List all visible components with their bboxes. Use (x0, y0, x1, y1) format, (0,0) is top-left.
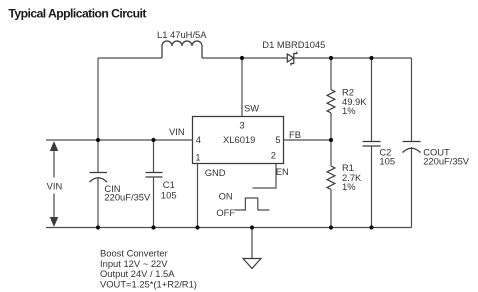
wire R1 top lead (330, 140, 332, 166)
svg-text:ON: ON (219, 190, 233, 201)
wire FB pin 5 to divider node (284, 139, 332, 141)
capacitor CIN (90, 173, 108, 183)
svg-text:105: 105 (379, 156, 395, 167)
capacitor C1 (146, 173, 163, 178)
wire left vertical from top rail down to VIN rail (97, 58, 99, 140)
svg-text:FB: FB (289, 129, 301, 140)
diode D1 (schottky) (287, 52, 297, 66)
svg-text:105: 105 (161, 190, 177, 201)
svg-text:Typical Application Circuit: Typical Application Circuit (8, 6, 146, 20)
ground (243, 228, 261, 269)
wire CIN top lead (97, 140, 99, 173)
svg-text:VOUT=1.25*(1+R2/R1): VOUT=1.25*(1+R2/R1) (100, 279, 197, 290)
op-amp U1 XL6019 box (193, 117, 284, 164)
wire SW node rail (L1 to D1 anode) (202, 57, 288, 59)
wire SW pin 3 vertical (241, 58, 243, 117)
svg-text:220uF/35V: 220uF/35V (423, 156, 470, 167)
wire COUT bottom lead (411, 147, 413, 228)
capacitor C2 (363, 142, 381, 147)
wire GND pin 1 vertical (197, 164, 199, 228)
wire C2 top lead (371, 58, 373, 142)
wire COUT top lead (411, 58, 413, 142)
svg-text:VIN: VIN (169, 126, 185, 137)
resistor R2 (327, 90, 335, 113)
svg-text:GND: GND (205, 167, 226, 178)
wire C1 top lead (153, 140, 155, 173)
resistor R1 (327, 166, 335, 189)
wire R1 bottom lead (330, 189, 332, 227)
wire output top rail (D1 cathode to COUT corner) (294, 57, 412, 59)
svg-text:VIN: VIN (47, 181, 63, 192)
inductor L1 (162, 41, 202, 58)
svg-text:XL6019: XL6019 (223, 134, 255, 145)
wire C1 bottom lead (153, 177, 155, 228)
wire top rail left segment (VIN to L1) (98, 57, 162, 59)
wire VIN rail (46, 139, 193, 141)
svg-text:220uF/35V: 220uF/35V (104, 192, 151, 203)
wire R2 bottom lead (330, 113, 332, 140)
svg-text:1%: 1% (342, 181, 356, 192)
svg-text:4: 4 (196, 134, 201, 145)
capacitor COUT (403, 142, 421, 153)
wire ground rail (46, 227, 412, 229)
svg-text:1%: 1% (342, 105, 356, 116)
svg-text:5: 5 (275, 134, 280, 145)
svg-text:SW: SW (244, 102, 259, 113)
svg-text:3: 3 (239, 120, 244, 131)
VIN input annotation arrows (51, 143, 58, 226)
svg-text:1: 1 (195, 151, 200, 162)
wire CIN bottom lead (97, 177, 99, 228)
svg-text:D1 MBRD1045: D1 MBRD1045 (262, 39, 325, 50)
svg-text:EN: EN (276, 166, 289, 177)
svg-text:L1 47uH/5A: L1 47uH/5A (157, 29, 207, 40)
wire EN pin 2 bend (253, 164, 277, 189)
svg-text:OFF: OFF (216, 207, 235, 218)
EN on/off waveform (235, 198, 270, 210)
wire R2 top lead (330, 58, 332, 90)
svg-text:C1: C1 (163, 179, 175, 190)
svg-text:2: 2 (271, 149, 276, 160)
wire C2 bottom lead (371, 146, 373, 228)
